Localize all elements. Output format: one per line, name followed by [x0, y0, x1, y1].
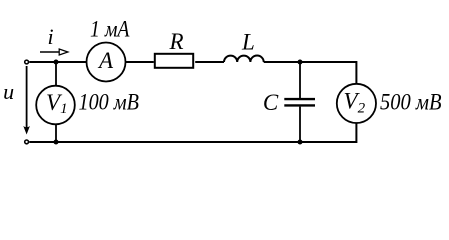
svg-text:R: R: [168, 29, 183, 54]
svg-text:u: u: [3, 79, 14, 104]
svg-text:A: A: [97, 48, 114, 73]
svg-text:500 мВ: 500 мВ: [380, 90, 442, 115]
svg-text:i: i: [48, 24, 54, 49]
svg-text:100 мВ: 100 мВ: [79, 90, 140, 115]
svg-text:L: L: [241, 29, 255, 54]
svg-text:C: C: [263, 90, 279, 115]
svg-text:1 мА: 1 мА: [90, 16, 130, 41]
